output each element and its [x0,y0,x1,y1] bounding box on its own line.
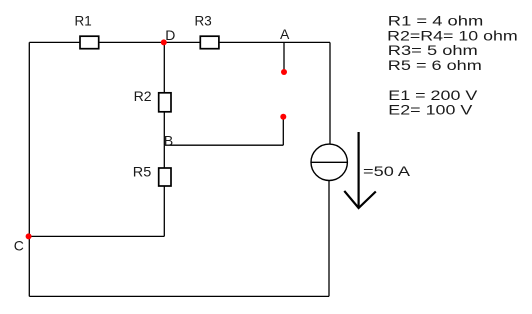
wire C horizontal (y236) [29,235,164,237]
svg-text:D: D [165,27,175,43]
svg-text:R2=R4= 10 ohm: R2=R4= 10 ohm [387,29,518,44]
svg-text:R5: R5 [133,163,152,179]
wire top (x28-330 at y42) [29,41,330,43]
svg-text:R5 = 6 ohm: R5 = 6 ohm [388,58,482,73]
node A switch upper dot [281,69,287,75]
resistor R2 [159,93,171,112]
node D dot [161,39,167,45]
wire R2 bottom to B [163,112,165,145]
wire right upper (x330, y42-144) [329,42,331,144]
wire switch riser (x283, y117-145) [282,117,284,145]
svg-text:B: B [164,133,173,149]
svg-text:R3= 5 ohm: R3= 5 ohm [388,43,478,58]
resistor R3 [200,36,219,49]
node C dot [26,233,32,239]
wire B horizontal (y145) [164,144,283,146]
wire B to R5 [163,145,165,168]
svg-text:R1: R1 [75,12,92,28]
svg-text:R1 = 4 ohm: R1 = 4 ohm [388,13,484,28]
svg-text:R3: R3 [195,12,212,28]
svg-text:C: C [14,237,24,253]
wire R5 bottom to C line [163,186,165,236]
svg-text:E2= 100 V: E2= 100 V [388,103,472,118]
resistor R5 [159,168,171,186]
wire bottom (y296) [29,295,329,297]
current arrow head [344,191,376,208]
switch lower dot [280,114,286,120]
resistor R1 [80,36,99,49]
current source I1 circle [311,144,347,180]
wire D vertical (x164, y42-93) [163,42,165,92]
svg-text:E1 = 200 V: E1 = 200 V [388,88,477,103]
wire left (x29 from y42-296) [28,42,30,296]
wire right lower (below current source) [328,181,330,297]
current arrow shaft [358,132,360,208]
svg-text:R2: R2 [134,88,152,104]
wire A vertical (x284, y42-72) [283,42,285,72]
svg-text:A: A [280,26,290,42]
svg-text:=50 A: =50 A [363,163,411,179]
current source bar [311,161,347,163]
